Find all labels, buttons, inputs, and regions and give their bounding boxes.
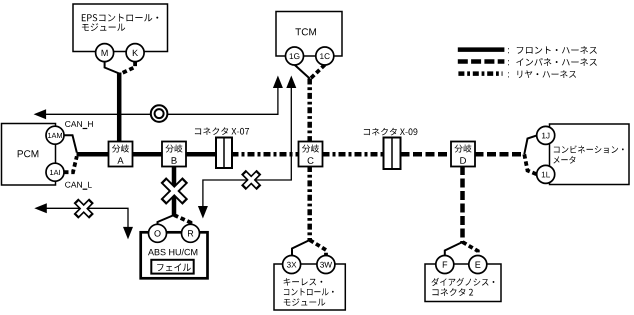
twisted-pair marker (double circle) on CAN_H line xyxy=(151,105,168,122)
wire diagnosis terminal E lead (dashed) xyxy=(463,242,478,256)
TCM box xyxy=(276,12,342,57)
label letter B xyxy=(172,157,177,164)
branch junction box 分岐 A xyxy=(109,142,133,167)
disconnect X mark on CAN_L reroute line xyxy=(76,201,92,217)
label EPS control module line1 xyxy=(82,14,159,22)
legend sample line front harness (solid) xyxy=(458,47,505,52)
branch junction box 分岐 C xyxy=(299,142,323,167)
disconnect X mark below branch B xyxy=(163,180,185,202)
terminal F of diagnosis xyxy=(436,256,454,274)
label EPS control module line2 xyxy=(82,23,125,31)
arrowhead up toward TCM 1G xyxy=(273,76,283,89)
label 分岐 of box D xyxy=(454,144,471,152)
wire ABS terminal O lead (solid) xyxy=(158,215,175,225)
label combination meter line1 xyxy=(554,145,624,153)
wire branch B drop to ABS xyxy=(172,165,177,215)
wire TCM terminal 1C lead (dashed) xyxy=(310,65,325,79)
label connector X-07 xyxy=(195,127,249,135)
wire branch C drop to keyless module xyxy=(307,166,312,240)
label 分岐 of box B xyxy=(165,144,182,152)
wire CAN_H reroute line to TCM arrow xyxy=(45,87,278,114)
pin label 1G xyxy=(290,53,300,59)
wire PCM terminal 1AM lead CAN_H (solid) xyxy=(64,135,77,152)
label letter D xyxy=(460,157,466,164)
terminal 1G of TCM xyxy=(286,47,304,65)
terminal O of ABS xyxy=(149,224,167,242)
arrowhead down toward ABS terminal R xyxy=(198,206,208,219)
legend text rear harness xyxy=(517,70,576,78)
wire EPS drop to branch A xyxy=(117,73,122,153)
wire branch D drop to diagnosis connector xyxy=(460,166,465,242)
wire branch C riser to TCM xyxy=(307,79,312,143)
wire TCM terminal 1G lead (solid) xyxy=(295,65,310,79)
terminal 1L of meter xyxy=(537,165,555,183)
wire meter terminal 1L lead (dashed) xyxy=(524,154,537,174)
label ABS HU/CM xyxy=(148,249,197,256)
label connector X-09 xyxy=(364,128,418,136)
pin label K xyxy=(133,50,138,56)
pin label 3W xyxy=(320,262,332,268)
diagnosis connector 2 box xyxy=(425,264,501,302)
wire EPS terminal K lead (dashed) xyxy=(121,62,136,74)
label diagnosis line1 xyxy=(432,278,495,286)
legend sample line rear harness (dash-dot) xyxy=(458,71,502,76)
terminal 1AI of PCM xyxy=(46,163,64,181)
wire ABS-R to TCM-1C reroute line xyxy=(203,87,291,207)
combination meter box xyxy=(550,124,630,185)
pin label O xyxy=(154,230,160,236)
branch junction box 分岐 B xyxy=(162,142,186,167)
terminal 1J of meter xyxy=(537,126,555,144)
terminal M of EPS xyxy=(96,44,114,62)
ABS HU/CM box xyxy=(141,232,208,278)
label keyless line3 xyxy=(284,298,326,305)
label 分岐 of box A xyxy=(112,144,129,152)
legend text inpane harness xyxy=(516,58,597,66)
pin label 1AM xyxy=(48,133,62,138)
label combination meter line2 xyxy=(553,156,575,164)
label fail xyxy=(157,263,191,271)
branch junction box 分岐 D xyxy=(451,142,475,167)
fail indicator box xyxy=(151,260,193,274)
label keyless line2 xyxy=(284,288,334,295)
terminal E of diagnosis xyxy=(469,256,487,274)
wire diagnosis terminal F lead (solid) xyxy=(445,242,463,256)
label diagnosis line2 xyxy=(432,288,473,296)
pin label R xyxy=(188,230,193,236)
terminal 1C of TCM xyxy=(316,47,334,65)
pin label E xyxy=(476,262,481,268)
wire keyless terminal 3W lead (dashed) xyxy=(310,240,326,256)
wire CAN bus inpane-harness segment branch D to meter xyxy=(475,152,525,157)
wire CAN bus rear-harness segment X-07 to branch C xyxy=(232,152,300,157)
wire PCM terminal 1AI lead CAN_L (dashed) xyxy=(64,156,77,172)
wire CAN bus front-harness segment PCM to connector X-07 xyxy=(77,152,218,157)
PCM box xyxy=(2,124,56,186)
label letter A xyxy=(117,157,123,164)
keyless control module box xyxy=(274,264,345,310)
wire CAN bus inpane-harness segment X-09 to branch D xyxy=(401,152,453,157)
disconnect X mark on ABS-TCM reroute line xyxy=(243,172,259,188)
connector X-07 symbol xyxy=(216,138,232,169)
pin label 1J xyxy=(542,133,549,139)
wire keyless terminal 3X lead (solid) xyxy=(292,240,310,256)
terminal K of EPS xyxy=(126,44,144,62)
pin label 1AI xyxy=(50,170,60,175)
pin label 1C xyxy=(320,53,330,59)
terminal R of ABS xyxy=(182,224,200,242)
label keyless line1 xyxy=(284,278,323,286)
connector X-09 symbol xyxy=(384,138,401,170)
arrowhead left on CAN_H reroute xyxy=(34,109,47,119)
pin label 1L xyxy=(542,172,550,178)
wire EPS terminal M lead (solid) xyxy=(105,62,120,74)
legend colon 2 xyxy=(507,60,510,65)
wire CAN_L reroute line xyxy=(45,208,128,227)
legend colon 3 xyxy=(507,72,510,77)
label letter C xyxy=(308,157,314,164)
net label CAN_H xyxy=(65,121,93,127)
EPS control module box xyxy=(73,4,168,52)
wire CAN bus rear-harness segment branch C to X-09 xyxy=(323,152,385,157)
arrowhead up toward TCM 1C xyxy=(286,76,296,89)
legend text front harness xyxy=(517,46,597,54)
wire meter terminal 1J lead (solid) xyxy=(524,135,537,154)
label TCM xyxy=(295,28,316,35)
terminal 3W of keyless xyxy=(317,256,335,274)
arrowhead left on CAN_L reroute xyxy=(34,203,47,213)
pin label F xyxy=(443,262,447,268)
label 分岐 of box C xyxy=(302,144,319,152)
legend sample line inpane harness (dashed) xyxy=(458,59,505,64)
wire ABS terminal R lead (dashed) xyxy=(174,215,191,225)
arrowhead down left of ABS xyxy=(123,227,133,240)
legend colon 1 xyxy=(507,48,510,53)
terminal 3X of keyless xyxy=(283,256,301,274)
pin label M xyxy=(102,50,108,56)
label PCM xyxy=(18,150,39,157)
terminal 1AM of PCM xyxy=(46,126,64,144)
net label CAN_L xyxy=(65,182,92,188)
pin label 3X xyxy=(287,262,297,268)
